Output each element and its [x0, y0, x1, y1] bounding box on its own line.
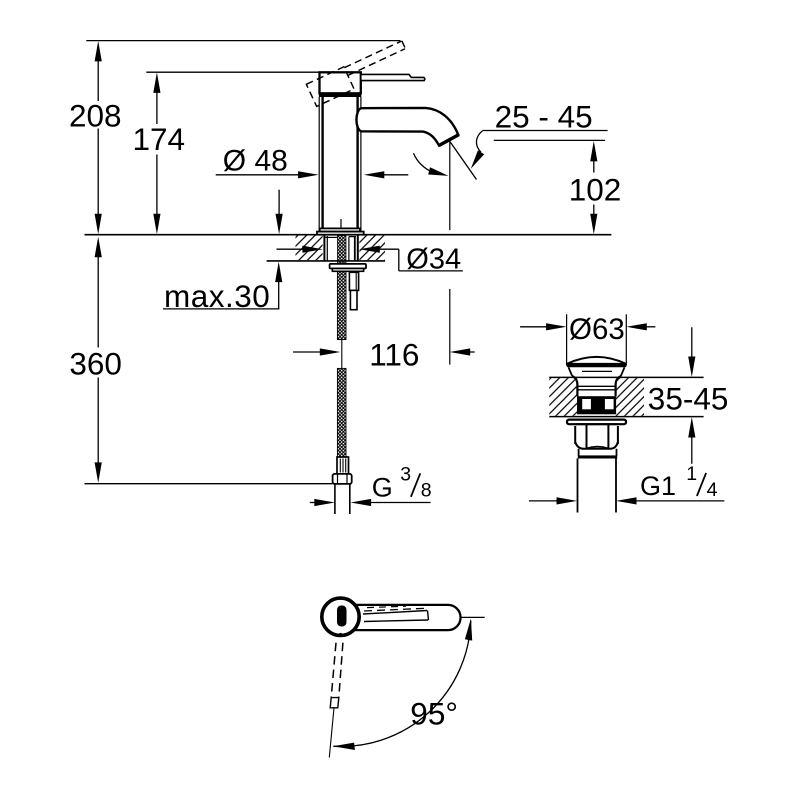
svg-text:G: G: [372, 473, 393, 503]
dimension max.30: [163, 190, 283, 315]
drain cap band: [566, 363, 626, 367]
top view dots: [357, 616, 360, 619]
svg-text:35-45: 35-45: [648, 380, 729, 416]
svg-text:102: 102: [569, 171, 622, 207]
dimension G3/8: [310, 463, 432, 506]
faucet body extension lines: [318, 97, 320, 231]
drain cap lower sides: [569, 367, 625, 375]
svg-text:360: 360: [69, 346, 122, 382]
hose nut G3/8: [333, 474, 352, 484]
dimension G1 1/4: [529, 463, 724, 504]
water stream diagonal: [450, 142, 477, 180]
dimension 174: [133, 72, 186, 234]
svg-text:max.30: max.30: [164, 278, 270, 314]
drain neck: [572, 376, 621, 396]
svg-text:208: 208: [69, 97, 122, 133]
svg-text:G1: G1: [640, 471, 676, 501]
countertop hatching right: [359, 236, 385, 261]
drain tailpipe: [577, 459, 579, 513]
faucet body cylinder: [321, 97, 323, 229]
base plinth step 2: [317, 232, 364, 235]
mounting hole right edge: [357, 235, 359, 261]
countertop top line: [85, 234, 612, 236]
mounting hole left edge: [323, 235, 325, 261]
top view lever inside spout: [363, 606, 429, 621]
pull rod housing upper: [349, 272, 358, 290]
countertop bottom line: [267, 260, 386, 262]
drain slab hatching left: [549, 378, 577, 416]
handle lever: [361, 74, 425, 80]
svg-text:Ø34: Ø34: [406, 243, 461, 275]
drain lower flange: [567, 420, 626, 425]
svg-text:25 - 45: 25 - 45: [495, 99, 593, 135]
hose ferrule: [337, 457, 349, 474]
outlet extension line lower: [449, 289, 451, 365]
dimension 102: [569, 141, 622, 234]
cartridge centerline: [340, 219, 342, 232]
drain slab bottom line: [549, 416, 703, 418]
top view centerline right: [461, 616, 485, 618]
svg-text:174: 174: [133, 121, 186, 157]
label 25 - 45 with leader: [471, 99, 608, 169]
dimension 35-45: [648, 327, 729, 464]
svg-text:116: 116: [369, 337, 419, 373]
pull rod housing lower: [350, 290, 357, 309]
faucet head: [320, 72, 361, 93]
hose end tube: [334, 484, 336, 514]
flexible hose upper: [337, 271, 346, 339]
drain slab top line: [549, 376, 703, 378]
svg-text:4: 4: [707, 479, 718, 501]
svg-text:95°: 95°: [410, 696, 458, 732]
dimension 360: [69, 237, 122, 483]
drain: Ø63 extension lines: [566, 314, 568, 365]
top reference line (208): [86, 40, 400, 42]
svg-text:Ø63: Ø63: [569, 313, 625, 346]
top view body circle: [322, 598, 359, 635]
95 degree arc: [333, 621, 471, 747]
dimension Ø63: [520, 313, 655, 346]
lifted handle (dashed): [306, 40, 411, 106]
dimension Ø34 leader: [277, 243, 463, 275]
top view lever pin: [337, 606, 347, 627]
top view spout capsule: [352, 605, 461, 630]
drain cap dome: [567, 357, 626, 364]
svg-text:Ø 48: Ø 48: [223, 144, 288, 177]
swivel arc arrow left: [414, 153, 449, 176]
drain locknut: [575, 424, 618, 449]
outlet extension line upper: [449, 141, 451, 230]
outlet level reference line (102): [494, 139, 605, 141]
shank detail lines: [325, 236, 356, 261]
reference line 174 at head top: [146, 71, 319, 73]
spout outlet face: [439, 135, 459, 146]
bottom reference line (360): [85, 483, 333, 485]
faucet spout: [356, 108, 458, 145]
svg-text:8: 8: [421, 479, 432, 501]
dimension 208: [69, 41, 122, 234]
base plinth step 1: [320, 228, 360, 231]
drain overflow window band: [577, 396, 616, 414]
drain reducer: [578, 449, 580, 456]
svg-text:1: 1: [686, 463, 697, 485]
mounting flange 2: [332, 269, 363, 272]
hose break centerline: [341, 340, 343, 369]
dimension 116: [293, 337, 475, 373]
threaded rod: [338, 235, 346, 264]
mounting flange 1: [330, 264, 366, 269]
flexible hose lower: [337, 368, 346, 457]
countertop hatching left: [296, 236, 323, 261]
dimension Ø48: [216, 144, 409, 178]
swung spout dashed: [329, 643, 343, 758]
drain slab hatching right: [616, 378, 644, 416]
head base band: [319, 93, 361, 97]
svg-text:3: 3: [400, 463, 411, 485]
